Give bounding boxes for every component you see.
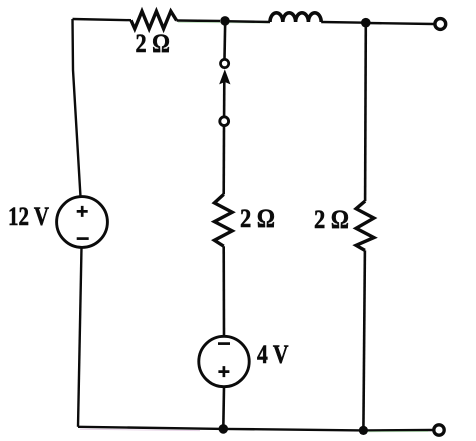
node D junction dot (bottom right) xyxy=(359,426,368,435)
wire lower port circle to resistor R2 xyxy=(222,125,225,195)
resistor R3 2Ω (right) xyxy=(356,201,374,250)
wire node A down to port circle xyxy=(223,21,226,59)
port terminal small circle (upper) xyxy=(221,59,229,67)
svg-text:2 Ω: 2 Ω xyxy=(240,204,275,233)
inductor L1 (top) xyxy=(270,13,321,22)
minus sign of V1 xyxy=(77,237,89,240)
resistor R1 2Ω (top) xyxy=(131,11,177,29)
wire R1 to node A (green-tinted scan) xyxy=(177,19,220,22)
voltage source V2 4V xyxy=(199,336,249,386)
wire bottom-left horizontal (magenta-tinted scan) xyxy=(78,427,223,429)
wire node D to bottom-right terminal (green-tinted scan) xyxy=(363,429,432,432)
wire R2 to 4V source xyxy=(222,246,225,336)
node B junction dot xyxy=(361,18,371,28)
wire 4V source to node C xyxy=(222,387,225,429)
wire left branch (down from top-left corner to 12V source) xyxy=(73,19,81,197)
wire node C to node D (bottom) xyxy=(223,429,363,431)
plus sign of V2 xyxy=(218,366,229,377)
node C junction dot (bottom middle) xyxy=(219,424,229,434)
wire node B down to resistor R3 xyxy=(364,23,367,201)
current arrow (pointing up) xyxy=(220,71,229,83)
svg-text:2 Ω: 2 Ω xyxy=(136,29,171,58)
minus sign of V2 xyxy=(218,342,230,345)
wire node A to inductor xyxy=(225,20,270,23)
wire R3 to node D xyxy=(363,250,365,430)
wire inductor to node B xyxy=(321,21,366,24)
voltage source V1 12V xyxy=(57,197,108,248)
wire 12V source to bottom-left corner xyxy=(78,248,82,427)
node A junction dot xyxy=(220,16,230,26)
svg-text:2 Ω: 2 Ω xyxy=(314,205,349,234)
wire node B to top-right terminal xyxy=(366,23,434,24)
svg-text:12 V: 12 V xyxy=(8,202,49,231)
wire top-left horizontal xyxy=(73,19,132,20)
terminal top-right (open circle) xyxy=(435,19,446,30)
terminal bottom-right (open circle) xyxy=(434,425,444,435)
resistor R2 2Ω (middle) xyxy=(214,194,232,246)
plus sign of V1 xyxy=(77,206,88,217)
wire arrow to lower port circle xyxy=(223,80,226,116)
svg-text:4 V: 4 V xyxy=(257,340,289,369)
port terminal small circle (lower) xyxy=(220,117,229,126)
